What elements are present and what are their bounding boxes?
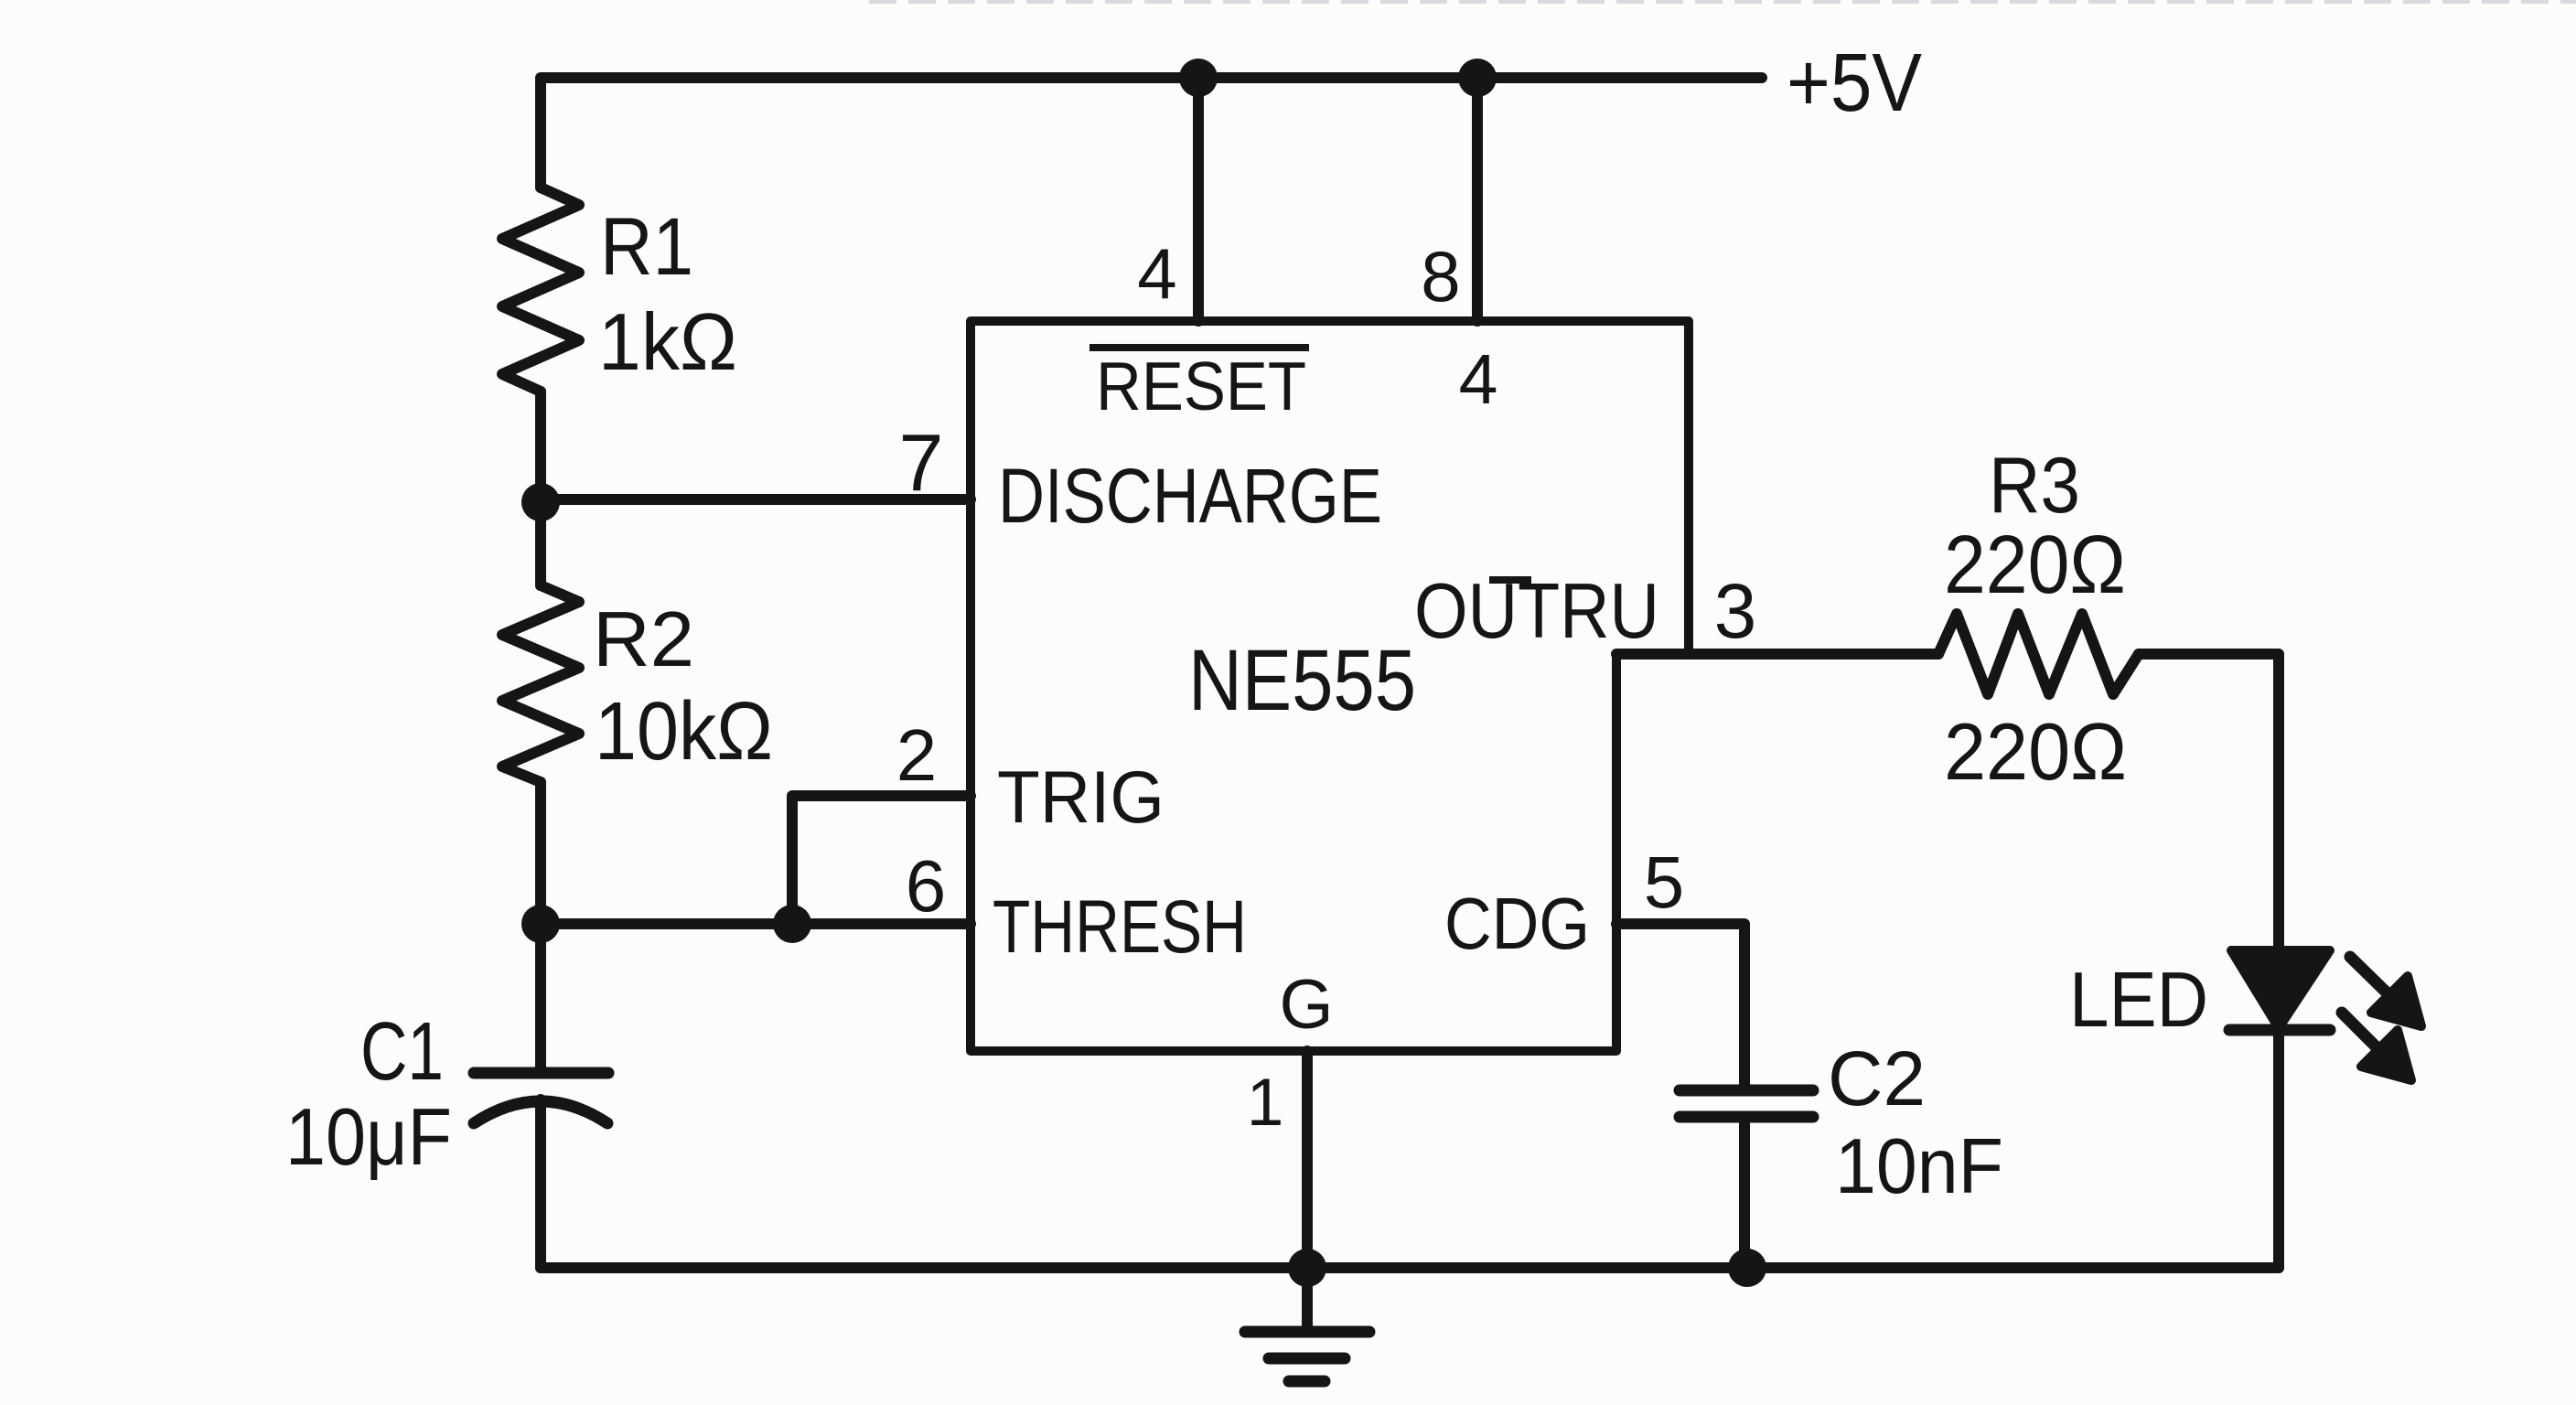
svg-text:10kΩ: 10kΩ xyxy=(595,686,773,778)
svg-text:NE555: NE555 xyxy=(1188,632,1416,729)
svg-text:7: 7 xyxy=(899,417,944,508)
svg-text:G: G xyxy=(1279,966,1333,1044)
svg-text:4: 4 xyxy=(1137,233,1176,314)
svg-text:R1: R1 xyxy=(600,200,693,292)
svg-text:THRESH: THRESH xyxy=(993,885,1247,969)
svg-text:4: 4 xyxy=(1459,340,1498,419)
svg-text:5: 5 xyxy=(1644,842,1685,923)
svg-text:220Ω: 220Ω xyxy=(1944,706,2127,797)
svg-text:8: 8 xyxy=(1421,236,1460,316)
svg-text:10nF: 10nF xyxy=(1835,1123,2003,1210)
svg-text:C1: C1 xyxy=(360,1006,444,1098)
svg-text:R3: R3 xyxy=(1989,442,2080,530)
svg-text:TRIG: TRIG xyxy=(997,756,1165,839)
svg-text:LED: LED xyxy=(2069,957,2208,1044)
svg-text:6: 6 xyxy=(906,845,947,927)
svg-text:1: 1 xyxy=(1247,1066,1284,1140)
svg-text:R2: R2 xyxy=(593,596,694,683)
svg-text:220Ω: 220Ω xyxy=(1944,520,2126,611)
svg-text:OUTRU: OUTRU xyxy=(1414,568,1659,655)
svg-text:RESET: RESET xyxy=(1096,348,1306,424)
svg-text:C2: C2 xyxy=(1828,1035,1926,1121)
svg-text:10μF: 10μF xyxy=(285,1091,452,1182)
svg-text:+5V: +5V xyxy=(1787,38,1922,129)
svg-text:DISCHARGE: DISCHARGE xyxy=(998,453,1382,539)
svg-text:CDG: CDG xyxy=(1444,883,1590,964)
svg-text:2: 2 xyxy=(896,714,938,796)
svg-text:3: 3 xyxy=(1714,568,1757,654)
svg-text:1kΩ: 1kΩ xyxy=(598,296,737,387)
